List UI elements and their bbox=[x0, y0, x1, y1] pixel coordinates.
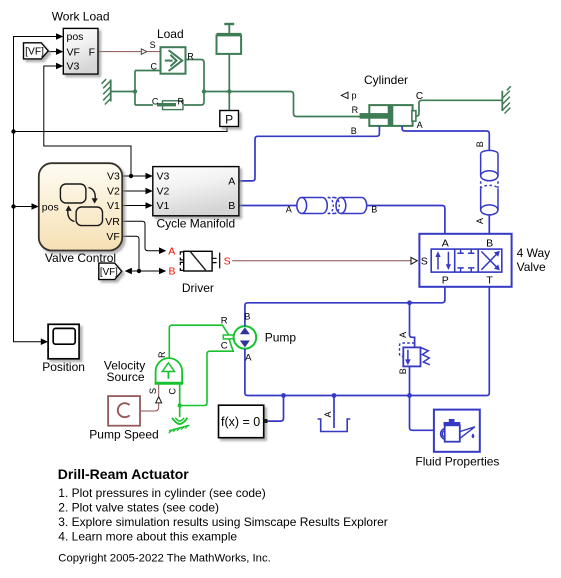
svg-text:V3: V3 bbox=[157, 171, 170, 183]
svg-text:Driver: Driver bbox=[182, 281, 214, 295]
svg-text:Cycle Manifold: Cycle Manifold bbox=[156, 217, 235, 231]
svg-text:R: R bbox=[221, 315, 228, 326]
svg-text:S: S bbox=[150, 40, 156, 50]
svg-text:[VF]: [VF] bbox=[100, 267, 118, 278]
svg-text:Pump Speed: Pump Speed bbox=[89, 428, 158, 442]
svg-text:S: S bbox=[421, 256, 428, 268]
svg-text:B: B bbox=[168, 266, 175, 278]
svg-text:Valve: Valve bbox=[517, 260, 546, 274]
svg-text:A: A bbox=[475, 218, 485, 224]
svg-text:P: P bbox=[442, 275, 449, 287]
svg-text:Copyright 2005-2022 The MathWo: Copyright 2005-2022 The MathWorks, Inc. bbox=[58, 553, 270, 565]
svg-text:Fluid Properties: Fluid Properties bbox=[415, 455, 499, 469]
svg-text:Source: Source bbox=[106, 370, 144, 384]
svg-text:p: p bbox=[352, 90, 357, 100]
svg-text:[VF]: [VF] bbox=[25, 47, 44, 58]
svg-text:B: B bbox=[228, 200, 235, 212]
svg-text:V2: V2 bbox=[157, 186, 170, 198]
svg-text:V3: V3 bbox=[67, 61, 80, 73]
svg-text:T: T bbox=[486, 275, 493, 287]
svg-text:V3: V3 bbox=[107, 171, 120, 183]
svg-text:Pump: Pump bbox=[265, 331, 297, 345]
svg-text:V2: V2 bbox=[107, 186, 120, 198]
svg-text:VF: VF bbox=[106, 231, 119, 243]
svg-text:f(x) = 0: f(x) = 0 bbox=[221, 415, 260, 429]
svg-text:Work Load: Work Load bbox=[52, 10, 110, 24]
svg-text:B: B bbox=[475, 141, 485, 147]
svg-text:Position: Position bbox=[42, 360, 85, 374]
svg-text:A: A bbox=[228, 176, 235, 188]
svg-text:B: B bbox=[398, 368, 408, 374]
svg-text:Load: Load bbox=[157, 27, 184, 41]
svg-text:VF: VF bbox=[67, 46, 80, 58]
svg-text:B: B bbox=[244, 312, 250, 323]
svg-text:A: A bbox=[323, 411, 333, 417]
svg-text:4. Learn more about this examp: 4. Learn more about this example bbox=[58, 530, 237, 544]
svg-text:S: S bbox=[224, 255, 231, 267]
svg-text:F: F bbox=[89, 46, 95, 58]
svg-text:R: R bbox=[187, 51, 194, 61]
svg-text:R: R bbox=[157, 351, 167, 358]
svg-text:A: A bbox=[286, 205, 292, 215]
svg-text:R: R bbox=[178, 96, 185, 106]
svg-text:2. Plot valve states (see code: 2. Plot valve states (see code) bbox=[58, 501, 219, 515]
svg-text:Cylinder: Cylinder bbox=[364, 73, 408, 87]
svg-text:A: A bbox=[417, 120, 423, 130]
svg-text:3. Explore simulation results: 3. Explore simulation results using Sims… bbox=[58, 515, 387, 529]
svg-text:C: C bbox=[167, 388, 177, 395]
svg-text:Drill-Ream Actuator: Drill-Ream Actuator bbox=[58, 466, 190, 482]
svg-text:Valve Control: Valve Control bbox=[45, 251, 116, 265]
svg-text:B: B bbox=[486, 237, 493, 249]
svg-text:pos: pos bbox=[42, 201, 59, 213]
svg-text:A: A bbox=[442, 237, 449, 249]
svg-text:R: R bbox=[352, 105, 359, 115]
svg-text:1. Plot pressures in cylinder: 1. Plot pressures in cylinder (see code) bbox=[58, 486, 265, 500]
svg-text:C: C bbox=[221, 340, 228, 351]
svg-text:C: C bbox=[416, 91, 423, 102]
svg-text:B: B bbox=[351, 126, 357, 136]
svg-text:A: A bbox=[245, 353, 252, 364]
svg-text:V1: V1 bbox=[107, 200, 120, 212]
svg-text:C: C bbox=[152, 97, 159, 107]
svg-text:S: S bbox=[148, 388, 158, 394]
svg-text:VR: VR bbox=[105, 216, 120, 228]
svg-text:A: A bbox=[398, 332, 408, 338]
svg-text:pos: pos bbox=[67, 31, 84, 43]
svg-text:P: P bbox=[225, 113, 233, 127]
svg-text:A: A bbox=[168, 245, 175, 257]
svg-text:4 Way: 4 Way bbox=[517, 246, 551, 260]
svg-text:B: B bbox=[371, 205, 377, 215]
svg-text:C: C bbox=[151, 61, 158, 71]
svg-text:V1: V1 bbox=[157, 200, 170, 212]
